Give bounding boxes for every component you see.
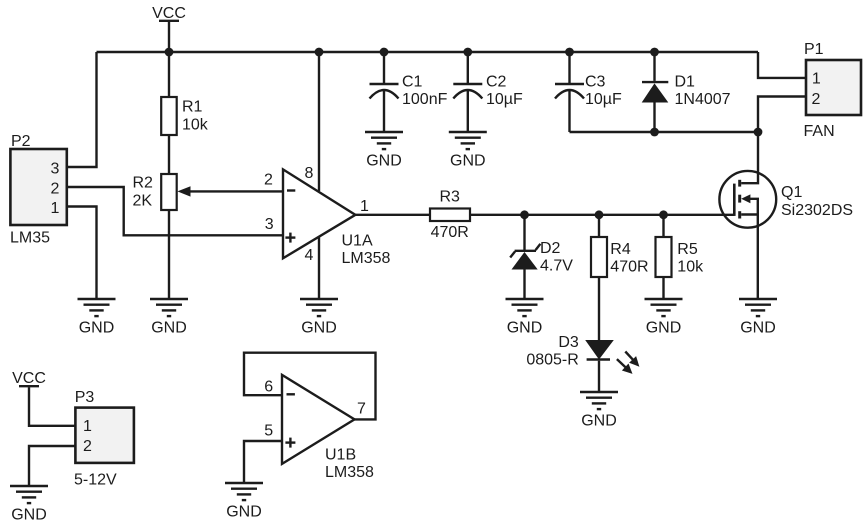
svg-text:U1B: U1B xyxy=(325,447,356,464)
capacitor C3 10uF xyxy=(555,52,622,132)
svg-text:10k: 10k xyxy=(677,259,704,276)
svg-text:C3: C3 xyxy=(585,74,606,91)
wire op-amp output to R3 xyxy=(355,214,430,216)
junction dot rail/D1 xyxy=(650,128,659,137)
wire U1B pin 5 to GND xyxy=(244,441,282,482)
junction dot gate line / R5 xyxy=(659,210,668,219)
ground D3 xyxy=(580,392,618,430)
junction dot bus/C3 xyxy=(565,48,574,57)
diode D1 1N4007 xyxy=(642,52,731,132)
svg-text:1: 1 xyxy=(360,198,369,215)
svg-text:0805-R: 0805-R xyxy=(526,352,578,369)
wire P1 pin 2 to rail xyxy=(758,97,806,133)
svg-text:2: 2 xyxy=(51,180,60,197)
svg-text:GND: GND xyxy=(740,320,776,337)
capacitor C2 10uF xyxy=(453,52,523,131)
svg-text:R4: R4 xyxy=(610,241,631,258)
svg-text:1: 1 xyxy=(51,200,60,217)
svg-text:3: 3 xyxy=(51,161,60,178)
wire P2 pin 1 to GND xyxy=(67,207,97,300)
svg-text:Q1: Q1 xyxy=(781,184,802,201)
wire U1B feedback loop xyxy=(244,353,376,420)
svg-text:LM358: LM358 xyxy=(342,250,391,267)
svg-text:5-12V: 5-12V xyxy=(74,472,117,489)
svg-text:4: 4 xyxy=(305,247,314,264)
svg-text:C1: C1 xyxy=(402,74,423,91)
wire op-amp pin 8 to bus xyxy=(318,52,320,191)
svg-text:2: 2 xyxy=(83,438,92,455)
junction dot gate line / D2 xyxy=(520,210,529,219)
ground U1B pin 5 xyxy=(225,483,263,521)
op-amp U1B LM358 xyxy=(264,375,374,481)
wire VCC to P3 pin 1 xyxy=(29,387,75,426)
ground P3 xyxy=(10,486,48,524)
resistor R3 470R xyxy=(430,189,470,241)
svg-text:10µF: 10µF xyxy=(486,91,523,108)
svg-text:GND: GND xyxy=(301,320,337,337)
svg-text:R3: R3 xyxy=(439,189,460,206)
op-amp U1A LM358 xyxy=(264,165,391,267)
svg-text:1N4007: 1N4007 xyxy=(675,91,731,108)
wire P2 pin 2 to op-amp pin 3 xyxy=(67,187,283,235)
ground D2 xyxy=(506,299,544,337)
potentiometer R2 2K xyxy=(133,174,191,210)
svg-text:GND: GND xyxy=(581,413,617,430)
svg-text:FAN: FAN xyxy=(804,123,835,140)
junction dot rail/Q1 drain xyxy=(754,128,763,137)
svg-text:470R: 470R xyxy=(610,259,648,276)
wire bus to P1 pin 1 xyxy=(758,52,806,78)
LED D3 0805-R xyxy=(526,334,639,391)
connector P1 FAN xyxy=(804,41,862,140)
svg-text:R5: R5 xyxy=(677,241,698,258)
wire R2 bottom to GND xyxy=(168,210,170,299)
svg-text:8: 8 xyxy=(305,165,314,182)
svg-text:10k: 10k xyxy=(182,117,209,134)
svg-text:D2: D2 xyxy=(540,240,561,257)
svg-text:1: 1 xyxy=(83,418,92,435)
wire R2 wiper to op-amp pin 2 xyxy=(190,190,283,192)
svg-text:C2: C2 xyxy=(486,74,507,91)
resistor R1 10k xyxy=(161,52,209,174)
wire op-amp pin 4 to GND xyxy=(318,237,320,299)
svg-text:GND: GND xyxy=(507,320,543,337)
svg-text:GND: GND xyxy=(79,320,115,337)
svg-text:P2: P2 xyxy=(11,133,31,150)
ground R2 xyxy=(150,299,188,337)
connector P2 LM35 xyxy=(10,133,67,247)
wire bus left drop to P2 pin 3 xyxy=(67,52,97,167)
svg-text:LM358: LM358 xyxy=(325,464,374,481)
svg-text:GND: GND xyxy=(646,320,682,337)
svg-text:1: 1 xyxy=(812,71,821,88)
svg-text:GND: GND xyxy=(226,504,262,521)
wire P3 pin 2 to GND xyxy=(29,446,75,486)
svg-text:2: 2 xyxy=(264,172,273,189)
svg-text:2K: 2K xyxy=(133,193,153,210)
resistor R5 10k xyxy=(656,215,705,299)
svg-text:D3: D3 xyxy=(558,334,579,351)
wire top VCC bus xyxy=(97,51,759,53)
junction dot gate line / R4 xyxy=(595,210,604,219)
resistor R4 470R xyxy=(591,215,649,340)
ground R5 xyxy=(645,299,683,337)
svg-text:U1A: U1A xyxy=(342,233,373,250)
svg-text:R2: R2 xyxy=(133,175,154,192)
svg-text:2: 2 xyxy=(812,91,821,108)
svg-text:5: 5 xyxy=(264,422,273,439)
svg-text:R1: R1 xyxy=(182,99,203,116)
svg-text:LM35: LM35 xyxy=(10,230,50,247)
ground Q1 source xyxy=(739,299,777,337)
svg-text:GND: GND xyxy=(151,320,187,337)
junction dot bus/C2 xyxy=(463,48,472,57)
wire Q1 source to GND xyxy=(757,215,759,300)
svg-text:VCC: VCC xyxy=(12,370,46,387)
svg-text:P3: P3 xyxy=(75,389,95,406)
svg-text:GND: GND xyxy=(366,153,402,170)
connector P3 5-12V xyxy=(74,389,134,489)
ground U1A pin 4 xyxy=(300,299,338,337)
svg-text:7: 7 xyxy=(357,401,366,418)
junction dot bus/D1 xyxy=(650,48,659,57)
svg-text:3: 3 xyxy=(265,216,274,233)
ground C2 xyxy=(449,132,487,170)
power flag VCC top xyxy=(152,5,186,52)
ground C1 xyxy=(365,132,403,170)
svg-text:P1: P1 xyxy=(804,41,824,58)
junction dot bus/C1 xyxy=(380,48,389,57)
junction dot bus/pin8 xyxy=(315,48,324,57)
junction dot bus/R1 xyxy=(165,48,174,57)
svg-text:GND: GND xyxy=(450,153,486,170)
svg-text:6: 6 xyxy=(264,378,273,395)
svg-text:GND: GND xyxy=(11,507,47,524)
zener diode D2 4.7V xyxy=(510,215,573,299)
svg-text:D1: D1 xyxy=(675,74,696,91)
power flag VCC bottom xyxy=(12,370,46,387)
svg-text:100nF: 100nF xyxy=(402,91,448,108)
svg-text:470R: 470R xyxy=(431,224,469,241)
wire R3 to Q1 gate xyxy=(470,214,734,216)
capacitor C1 100nF xyxy=(370,52,448,131)
MOSFET Q1 Si2302DS xyxy=(719,132,853,228)
wire fan rail xyxy=(570,131,759,133)
svg-text:4.7V: 4.7V xyxy=(540,258,573,275)
svg-text:10µF: 10µF xyxy=(585,91,622,108)
ground P2 pin 1 xyxy=(78,299,116,337)
svg-text:Si2302DS: Si2302DS xyxy=(781,202,853,219)
